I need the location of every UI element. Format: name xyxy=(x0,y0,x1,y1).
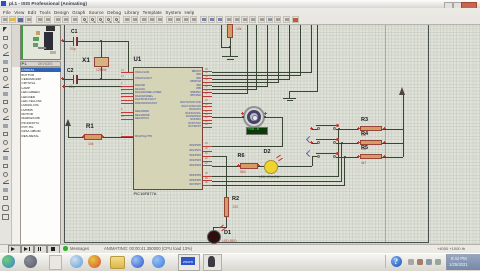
left panel background xyxy=(12,25,63,253)
wire RB5 to top xyxy=(212,89,257,90)
pin 6 RA4/T0CKI/C1OUT xyxy=(121,100,133,101)
status bar xyxy=(0,244,480,254)
node R7 junction xyxy=(229,46,231,48)
node sw3 junction xyxy=(344,156,346,158)
wire RA0 xyxy=(63,86,121,87)
pin 36 RB3/PGM xyxy=(203,82,212,83)
pin 21 RD2/PSP2 xyxy=(203,156,212,157)
pin 3 RA1/AN1 xyxy=(121,89,133,90)
wire sw1 to RD5 xyxy=(338,129,339,177)
resistor R7 pull-down top xyxy=(227,24,233,38)
pin 15 RC0/T1OSO/T1CKI xyxy=(203,103,212,104)
ground mid xyxy=(289,91,290,98)
switch row 3 xyxy=(306,150,313,157)
pin 4 RA2/AN2/VREF-/CVREF xyxy=(121,93,133,94)
pin 19 RD0/PSP0 xyxy=(203,146,212,147)
pin 20 RD1/PSP1 xyxy=(203,151,212,152)
resistor R1 xyxy=(86,124,94,130)
wire motor left xyxy=(212,117,243,118)
resistor R4 xyxy=(361,131,368,137)
pin 37 RB4 xyxy=(203,85,212,86)
pin 27 RD4/PSP4 xyxy=(203,165,212,166)
sheet border bottom xyxy=(64,242,429,243)
pin 8 RE0/AN5/RD xyxy=(121,112,133,113)
pin 7 RA5/AN4/SS/C2OUT xyxy=(121,103,133,104)
LED D2 xyxy=(264,160,279,175)
wire RB6 to top xyxy=(212,93,248,94)
wire ground net from top xyxy=(317,25,318,91)
mcu U1 xyxy=(134,57,142,63)
resistor R6 xyxy=(238,153,245,159)
pin 2 RA0/AN0 xyxy=(121,86,133,87)
switch row 1 xyxy=(312,129,318,130)
resistor R2 xyxy=(224,197,230,217)
menu bar xyxy=(0,8,480,15)
pin 16 RC1/T1OSI/CCP2 xyxy=(203,106,212,107)
wire R6 to D2 xyxy=(258,166,265,167)
resistor R5 xyxy=(361,145,368,151)
minimap content xyxy=(21,26,23,59)
pin 38 RB5 xyxy=(203,89,212,90)
pin 18 RC3/SCK/SCL xyxy=(203,113,212,114)
capacitor C2 xyxy=(67,68,73,74)
pin 13 OSC1/CLKIN xyxy=(121,72,133,73)
motor U2 xyxy=(243,106,265,128)
wire branch xyxy=(221,25,222,47)
title bar xyxy=(0,0,480,9)
wire RB3 to top xyxy=(212,82,279,83)
wire D2 to switch3 xyxy=(278,166,312,167)
pin 34 RB1 xyxy=(203,75,212,76)
wire crystal top lead xyxy=(101,41,102,57)
pin 5 RA3/AN3/VREF+ xyxy=(121,96,133,97)
pin 40 RB7/PGD xyxy=(203,96,212,97)
left tool column xyxy=(0,25,12,253)
faint divider line xyxy=(385,25,386,242)
wire crystal bottom lead xyxy=(101,67,102,80)
pin 33 RB0/INT xyxy=(203,71,212,72)
wire R2 to D1 xyxy=(226,217,227,228)
wire RB2 to top xyxy=(212,79,290,80)
power terminal arrow A xyxy=(399,87,405,95)
crystal X1 xyxy=(82,57,90,64)
wire sw3 to RD7 xyxy=(344,157,345,186)
wire RB1 to top xyxy=(212,75,301,76)
switch row 2 xyxy=(312,143,318,144)
capacitor C1 xyxy=(71,29,77,35)
wire R2 tap xyxy=(212,156,227,157)
pin 25 RC6/TX/CK xyxy=(203,123,212,124)
node crystal bottom junction xyxy=(100,78,102,80)
wire R6 row xyxy=(212,166,240,167)
resistor R3 xyxy=(361,117,368,123)
pin 17 RC2/CCP1 xyxy=(203,110,212,111)
wire OSC1 drop xyxy=(128,41,129,73)
motor rpm readout xyxy=(246,127,268,135)
pin 1 MCLR/Vpp/THV xyxy=(121,136,133,137)
pin 14 OSC2/CLKOUT xyxy=(121,79,133,80)
object selector header xyxy=(20,61,61,67)
wire sw2 to RD6 xyxy=(341,143,342,182)
pin 22 RD3/PSP3 xyxy=(203,161,212,162)
ground top xyxy=(222,56,238,57)
wire motor right xyxy=(264,117,283,118)
pin 9 RE1/AN6/WR xyxy=(121,115,133,116)
pin 39 RB6/PGC xyxy=(203,92,212,93)
overview minimap xyxy=(20,25,61,60)
pin 28 RD5/PSP5 xyxy=(203,176,212,177)
wire RB0 to top xyxy=(212,72,312,73)
schematic area xyxy=(63,25,480,244)
device list xyxy=(20,67,61,245)
power terminal arrow up xyxy=(68,126,69,137)
main toolbar xyxy=(0,15,480,25)
pin 24 RC5/SDO xyxy=(203,120,212,121)
pin 29 RD6/PSP6 xyxy=(203,180,212,181)
pin 10 RE2/AN7/CS xyxy=(121,119,133,120)
sheet border left xyxy=(64,25,65,242)
pin 23 RC4/SDI/SDA xyxy=(203,116,212,117)
wire motor return xyxy=(212,146,283,147)
node sw1 junction xyxy=(338,128,340,130)
node sw2 junction xyxy=(341,142,343,144)
wire R7 to ground xyxy=(230,38,231,56)
pin 26 RC7/RX/DT xyxy=(203,127,212,128)
vcc bus vertical xyxy=(403,95,404,157)
pin 35 RB2 xyxy=(203,78,212,79)
wire RB4 to top xyxy=(212,86,268,87)
taskbar xyxy=(0,253,480,271)
pin 30 RD7/PSP7 xyxy=(203,185,212,186)
node crystal top junction xyxy=(100,40,102,42)
LED D1 xyxy=(207,230,222,245)
sheet border right xyxy=(428,25,429,242)
